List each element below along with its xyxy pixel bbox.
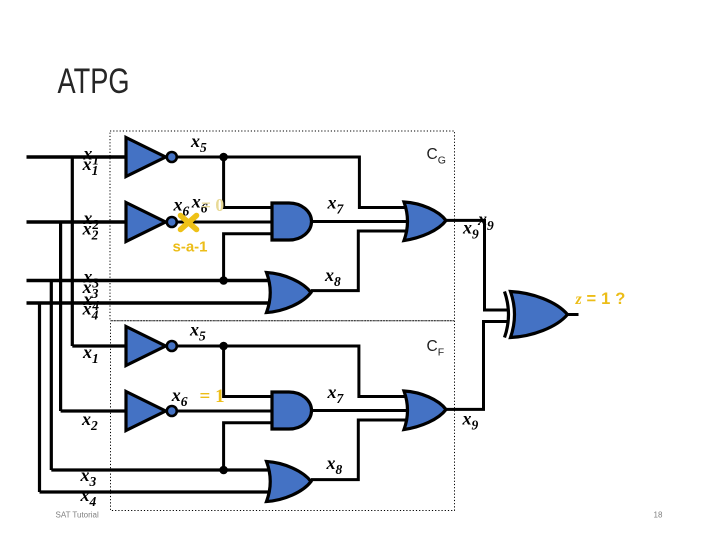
wire x7 (312, 220, 411, 223)
wire x3 branch to AND (224, 234, 272, 281)
wire x6 (177, 221, 272, 224)
wire x5 faulty (177, 346, 410, 397)
inverter G1 bubble (167, 152, 177, 162)
wire x3 tap to CF (51, 279, 272, 470)
OR gate U6 (x9 faulty) (404, 391, 446, 430)
wire x5 (177, 157, 410, 208)
inverter G3 bubble (167, 341, 177, 351)
XOR gate U7 (z) body (511, 292, 568, 338)
wire x1 tap to CF (72, 156, 126, 347)
svg-text:SAT Tutorial: SAT Tutorial (56, 511, 100, 520)
wire z output (568, 313, 579, 316)
wire x7 faulty (312, 409, 411, 412)
wire x6 faulty (177, 410, 272, 413)
svg-text:z = 1 ?: z = 1 ? (575, 290, 626, 308)
node x3 junction (219, 276, 228, 285)
OR gate U2 (x8) (267, 273, 312, 313)
wire x4 input (27, 301, 273, 305)
wire x3 input (27, 279, 273, 283)
svg-text:s-a-1: s-a-1 (173, 239, 208, 256)
wire x8 (311, 231, 410, 291)
svg-text:= 1: = 1 (200, 386, 225, 407)
wire x9 faulty to XOR (446, 322, 509, 410)
inverter G3 (x1 to x5 faulty copy) (126, 327, 166, 366)
wire x9 good to XOR (446, 220, 509, 310)
wire x1 input (27, 155, 127, 159)
wire x4 tap to CF (40, 302, 273, 493)
box CG (good circuit dotted frame) (110, 131, 455, 321)
wire x5 branch to AND (224, 157, 272, 208)
inverter G2 bubble (167, 217, 177, 227)
inverter G4 (x2 to x6 faulty copy) (126, 392, 166, 431)
node x5 junction (219, 153, 228, 162)
OR gate U3 (x9 good) (404, 202, 446, 241)
wire x8 faulty (311, 420, 410, 480)
svg-text:ATPG: ATPG (58, 62, 130, 101)
inverter G2 (x2 to x6) (126, 203, 166, 242)
XOR gate U7 (z) input arc (505, 292, 509, 338)
wire x5 faulty branch to AND (224, 346, 272, 397)
fault X mark s-a-1 (181, 216, 197, 230)
wire x3 faulty branch to AND (224, 423, 272, 470)
inverter G1 (x1 to x5) (126, 138, 166, 177)
svg-text:18: 18 (654, 511, 663, 520)
OR gate U5 (x8 faulty) (267, 462, 312, 502)
wire x2 input (27, 220, 127, 224)
node x5 faulty junction (219, 342, 228, 351)
svg-text:= 0: = 0 (201, 195, 224, 215)
wire x2 tap to CF (61, 221, 126, 412)
AND gate U4 (x7 faulty) (272, 392, 312, 429)
inverter G4 bubble (167, 406, 177, 416)
node x3 faulty junction (219, 466, 228, 475)
AND gate U1 (x7) (272, 203, 312, 240)
box CF (faulty circuit dotted frame) (111, 321, 455, 511)
